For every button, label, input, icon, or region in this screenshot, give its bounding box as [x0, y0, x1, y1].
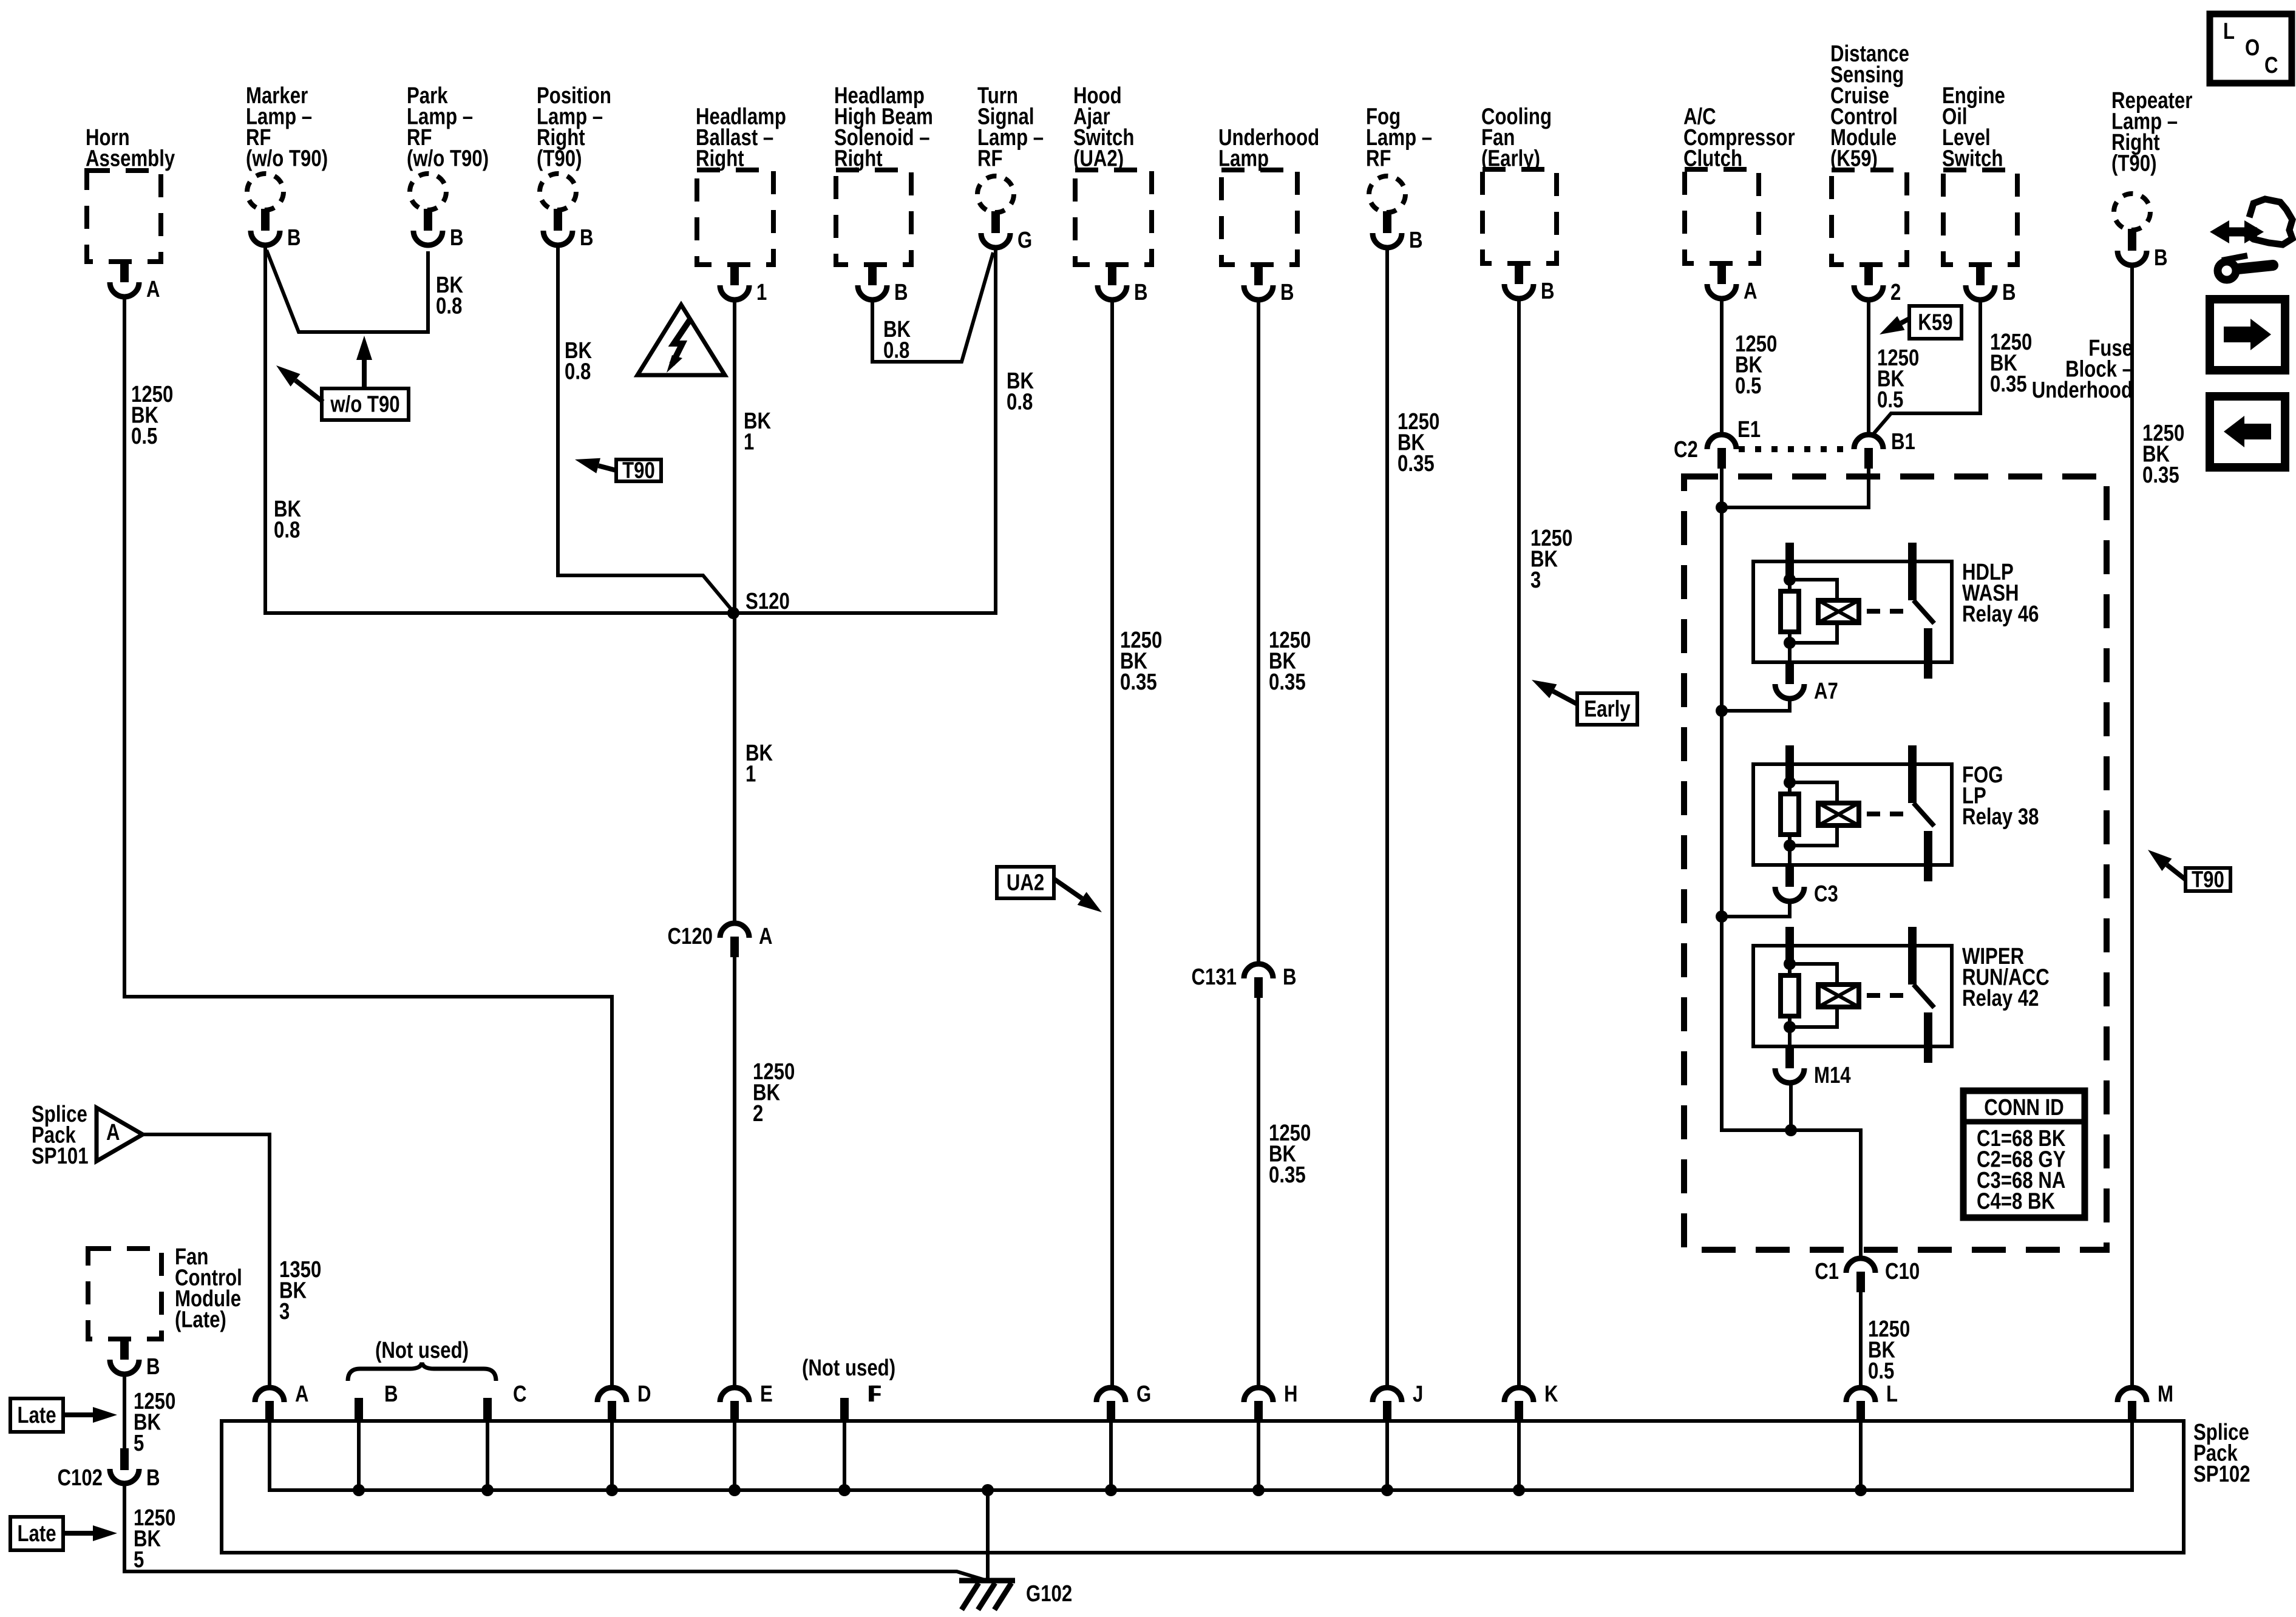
svg-text:(T90): (T90): [2111, 151, 2157, 177]
svg-text:0.35: 0.35: [2142, 463, 2179, 488]
bus pin C (not used): [483, 1398, 492, 1423]
svg-text:D: D: [637, 1381, 651, 1407]
svg-text:B: B: [2154, 245, 2168, 271]
svg-text:Assembly: Assembly: [86, 146, 175, 172]
svg-text:J: J: [1413, 1381, 1423, 1407]
svg-text:Relay 38: Relay 38: [1962, 804, 2039, 830]
svg-text:1: 1: [744, 430, 754, 455]
turn signal circle: [977, 176, 1014, 212]
svg-text:G: G: [1017, 228, 1032, 253]
wire cooling fan B to bus pin K: [1517, 299, 1521, 1388]
repeater pin B connector: [2128, 229, 2136, 251]
fan control module box: [88, 1249, 161, 1339]
bus pin B (not used): [355, 1398, 363, 1423]
svg-text:F: F: [868, 1381, 879, 1407]
fan module pin B connector: [120, 1338, 129, 1360]
cruise pin 2 connector: [1864, 263, 1873, 285]
svg-text:H: H: [1284, 1381, 1298, 1407]
svg-text:(w/o T90): (w/o T90): [407, 146, 489, 172]
engine oil level switch box: [1943, 170, 2017, 265]
ground symbol G102: [959, 1578, 1015, 1584]
svg-text:Late: Late: [17, 1403, 56, 1428]
svg-text:C10: C10: [1885, 1259, 1920, 1284]
wire fan module B to C102: [123, 1374, 126, 1449]
svg-text:0.35: 0.35: [1269, 1162, 1306, 1188]
headlamp ballast box: [697, 170, 773, 265]
svg-text:C1: C1: [1815, 1259, 1839, 1284]
bus pin D: [597, 1388, 627, 1402]
svg-text:C: C: [2264, 53, 2278, 78]
svg-text:M: M: [2158, 1381, 2173, 1407]
callout w/o T90 with up arrow: [322, 388, 409, 420]
svg-text:0.5: 0.5: [131, 424, 157, 449]
svg-text:G: G: [1136, 1381, 1151, 1407]
svg-text:B: B: [894, 280, 908, 305]
svg-text:Early: Early: [1584, 697, 1630, 722]
svg-text:T90: T90: [622, 458, 655, 484]
bus pin A: [255, 1388, 284, 1402]
svg-text:RF: RF: [1366, 146, 1391, 172]
wire position B to S120: [558, 245, 733, 612]
underhood lamp box: [1221, 170, 1297, 265]
wire ballast 1 to C120: [733, 300, 736, 923]
svg-text:0.35: 0.35: [1398, 451, 1435, 476]
svg-text:C102: C102: [58, 1465, 103, 1491]
wire marker B to S120: [265, 245, 733, 613]
oil switch pin B connector: [1976, 263, 1985, 285]
relay FOG LP Relay 38: [1753, 764, 1952, 865]
w/o T90 second arrow: [296, 381, 323, 402]
svg-text:0.8: 0.8: [436, 294, 462, 319]
svg-text:(T90): (T90): [537, 146, 582, 172]
svg-text:K59: K59: [1918, 310, 1952, 336]
svg-text:0.35: 0.35: [1990, 371, 2027, 397]
bus pin G: [1096, 1388, 1126, 1402]
wire repeater B to bus pin M: [2130, 265, 2134, 1388]
svg-text:E: E: [760, 1381, 773, 1407]
svg-text:C2: C2: [1674, 437, 1698, 463]
hood ajar pin B connector: [1108, 263, 1116, 285]
callout T90 (repeater): [2186, 868, 2230, 891]
dotted connector interface C2-B1: [1739, 446, 1852, 452]
cruise control module box: [1832, 170, 1907, 265]
svg-text:C: C: [513, 1381, 527, 1407]
wire C131 to bus pin H: [1257, 998, 1260, 1388]
svg-text:B: B: [1280, 280, 1294, 305]
connector C131 pin B: [1244, 964, 1273, 978]
horn assembly box: [87, 171, 161, 262]
svg-text:L: L: [1886, 1381, 1898, 1407]
junction B1 feed: [1716, 501, 1728, 514]
svg-text:3: 3: [1530, 568, 1541, 593]
svg-text:B: B: [146, 1465, 160, 1491]
svg-text:0.5: 0.5: [1735, 373, 1761, 399]
svg-text:2: 2: [753, 1101, 763, 1127]
a/c compressor clutch box: [1685, 169, 1759, 263]
svg-text:A: A: [1744, 279, 1758, 304]
left arrow box icon: [2210, 396, 2285, 467]
fuse block underhood dashed border: [1684, 476, 2107, 1250]
connector C1/C10: [1846, 1258, 1875, 1273]
svg-text:0.8: 0.8: [883, 338, 909, 364]
park pin B connector: [424, 209, 432, 231]
svg-text:5: 5: [134, 1431, 144, 1456]
svg-text:B: B: [384, 1381, 398, 1407]
svg-text:B: B: [146, 1354, 160, 1380]
svg-text:A: A: [146, 277, 160, 302]
splice pack SP102 outer rectangle: [222, 1421, 2184, 1553]
service/adjust icon (arrow + panel + wrench): [2210, 199, 2292, 280]
underhood pin B connector: [1254, 263, 1263, 285]
relay WIPER RUN/ACC Relay 42: [1753, 946, 1952, 1046]
svg-text:B: B: [1541, 279, 1555, 304]
svg-text:C4=8 BK: C4=8 BK: [1977, 1189, 2055, 1215]
position pin B connector: [554, 209, 562, 231]
wire horn A to bus pin D: [124, 297, 612, 1388]
svg-text:2: 2: [1890, 280, 1901, 305]
junction relay38 feed: [1716, 910, 1728, 923]
svg-text:B: B: [1134, 280, 1148, 305]
bus pin H: [1244, 1388, 1273, 1402]
LOC box icon: [2210, 14, 2292, 83]
repeater lamp circle: [2114, 194, 2150, 230]
wire C120 to bus pin E: [733, 957, 736, 1388]
wire relay42 M14 to main: [1789, 1083, 1793, 1130]
callout Late (lower): [10, 1517, 63, 1550]
svg-text:O: O: [2245, 35, 2260, 61]
wire relay38 C3 to main: [1722, 901, 1790, 917]
fuse block main ground wire: [1722, 469, 1861, 1258]
bus pin F (not used): [840, 1398, 849, 1423]
svg-text:G102: G102: [1026, 1581, 1072, 1607]
svg-text:Underhood: Underhood: [2032, 378, 2133, 403]
splice pack SP102 inner bus line: [270, 1421, 2132, 1490]
svg-text:M14: M14: [1814, 1063, 1851, 1088]
svg-text:C3: C3: [1814, 881, 1838, 907]
park lamp circle: [410, 174, 446, 210]
marker lamp circle: [247, 174, 284, 210]
svg-text:B: B: [287, 225, 301, 251]
svg-text:1: 1: [746, 762, 756, 787]
fog lamp circle: [1369, 176, 1405, 212]
svg-text:Relay 46: Relay 46: [1962, 602, 2039, 627]
svg-text:Late: Late: [17, 1521, 56, 1547]
CONN ID table: [1963, 1091, 2085, 1218]
svg-text:0.8: 0.8: [565, 359, 591, 385]
wire turn signal G to S120: [733, 248, 996, 613]
splice pack SP101 triangle: [97, 1108, 143, 1161]
svg-text:CONN ID: CONN ID: [1984, 1095, 2064, 1120]
junction relay46 feed: [1716, 705, 1728, 717]
marker pin B connector: [261, 209, 270, 231]
wire C10 to bus pin L: [1859, 1292, 1863, 1388]
svg-text:E1: E1: [1737, 417, 1761, 442]
svg-text:3: 3: [279, 1299, 290, 1324]
svg-text:C131: C131: [1192, 964, 1237, 990]
svg-text:B: B: [2002, 280, 2016, 305]
wire fog B to bus pin J: [1385, 248, 1389, 1388]
svg-text:L: L: [2223, 19, 2235, 44]
svg-text:A7: A7: [1814, 679, 1838, 704]
svg-text:K: K: [1544, 1381, 1558, 1407]
wire C102 to G102 ground: [124, 1483, 985, 1580]
wire to G102: [986, 1490, 990, 1581]
svg-text:B: B: [580, 225, 594, 251]
svg-text:0.5: 0.5: [1877, 387, 1903, 413]
wire cruise 2 to B1: [1867, 300, 1870, 435]
position lamp circle: [540, 174, 576, 210]
callout K59: [1909, 306, 1961, 339]
svg-text:B: B: [1283, 964, 1297, 990]
wire marker to park (w/o T90): [267, 250, 428, 332]
wire B1 into fuse block: [1722, 469, 1869, 507]
wire underhood B to C131: [1257, 300, 1260, 964]
svg-text:B1: B1: [1891, 429, 1915, 455]
fog pin B connector: [1383, 211, 1391, 233]
svg-text:w/o T90: w/o T90: [330, 392, 400, 418]
callout UA2: [997, 867, 1054, 898]
wire oil switch B to B1: [1873, 300, 1980, 435]
wire a/c A to C2: [1720, 299, 1724, 435]
hood ajar switch box: [1075, 170, 1152, 265]
bus pin K: [1504, 1388, 1533, 1402]
callout Late (upper): [10, 1398, 63, 1432]
wire relay46 A7 to main: [1722, 699, 1790, 711]
svg-text:0.35: 0.35: [1120, 670, 1157, 695]
svg-text:A: A: [106, 1120, 120, 1145]
svg-text:B: B: [450, 225, 464, 251]
svg-text:A: A: [295, 1381, 309, 1407]
connector B1: [1854, 435, 1883, 449]
svg-text:(Not used): (Not used): [802, 1355, 895, 1381]
connector C120 pin A: [720, 923, 749, 938]
svg-text:(Late): (Late): [175, 1307, 226, 1333]
horn pin A connector: [120, 260, 129, 282]
callout T90 (position): [616, 459, 661, 481]
svg-text:RF: RF: [977, 146, 1003, 172]
relay HDLP WASH Relay 46: [1753, 561, 1952, 662]
svg-text:C120: C120: [668, 924, 713, 949]
svg-text:(w/o T90): (w/o T90): [246, 146, 328, 172]
bus pin J: [1373, 1388, 1402, 1402]
warning triangle with lightning bolt: [637, 305, 725, 375]
svg-text:0.35: 0.35: [1269, 670, 1306, 695]
svg-text:S120: S120: [746, 589, 790, 614]
cooling fan pin B connector: [1515, 262, 1523, 284]
ballast pin 1 connector: [730, 263, 739, 285]
junction ground drop: [982, 1484, 994, 1496]
wire solenoid B to turn signal G: [872, 253, 993, 362]
svg-text:B: B: [1409, 228, 1423, 253]
svg-text:(Not used): (Not used): [375, 1338, 469, 1363]
wire SP101 to bus pin A: [143, 1134, 270, 1388]
svg-text:5: 5: [134, 1547, 144, 1573]
svg-text:UA2: UA2: [1007, 870, 1044, 896]
svg-text:0.8: 0.8: [274, 518, 300, 543]
brace (Not used) over pins B,C: [348, 1363, 496, 1381]
connector C102 pin B: [120, 1448, 129, 1470]
junction S120: [727, 607, 739, 619]
wire hood ajar B to bus pin G: [1110, 300, 1114, 1388]
a/c pin A connector: [1717, 262, 1726, 284]
cooling fan box: [1483, 169, 1557, 263]
callout Early: [1577, 693, 1637, 725]
svg-text:Relay 42: Relay 42: [1962, 986, 2039, 1011]
right arrow box icon: [2210, 299, 2285, 370]
turn signal pin G connector: [991, 211, 1000, 233]
svg-text:SP102: SP102: [2193, 1462, 2250, 1487]
junction M14: [1785, 1124, 1797, 1136]
solenoid pin B connector: [868, 263, 877, 285]
svg-text:SP101: SP101: [32, 1144, 89, 1169]
svg-text:0.8: 0.8: [1007, 390, 1033, 415]
svg-text:A: A: [759, 924, 773, 949]
svg-text:T90: T90: [2192, 867, 2224, 893]
svg-text:0.5: 0.5: [1868, 1358, 1894, 1384]
bus pin M: [2118, 1388, 2147, 1402]
connector C2/E1: [1707, 435, 1736, 449]
solenoid box: [836, 170, 911, 265]
svg-text:1: 1: [756, 280, 767, 305]
bus pin E: [720, 1388, 749, 1402]
bus pin L: [1846, 1388, 1875, 1402]
